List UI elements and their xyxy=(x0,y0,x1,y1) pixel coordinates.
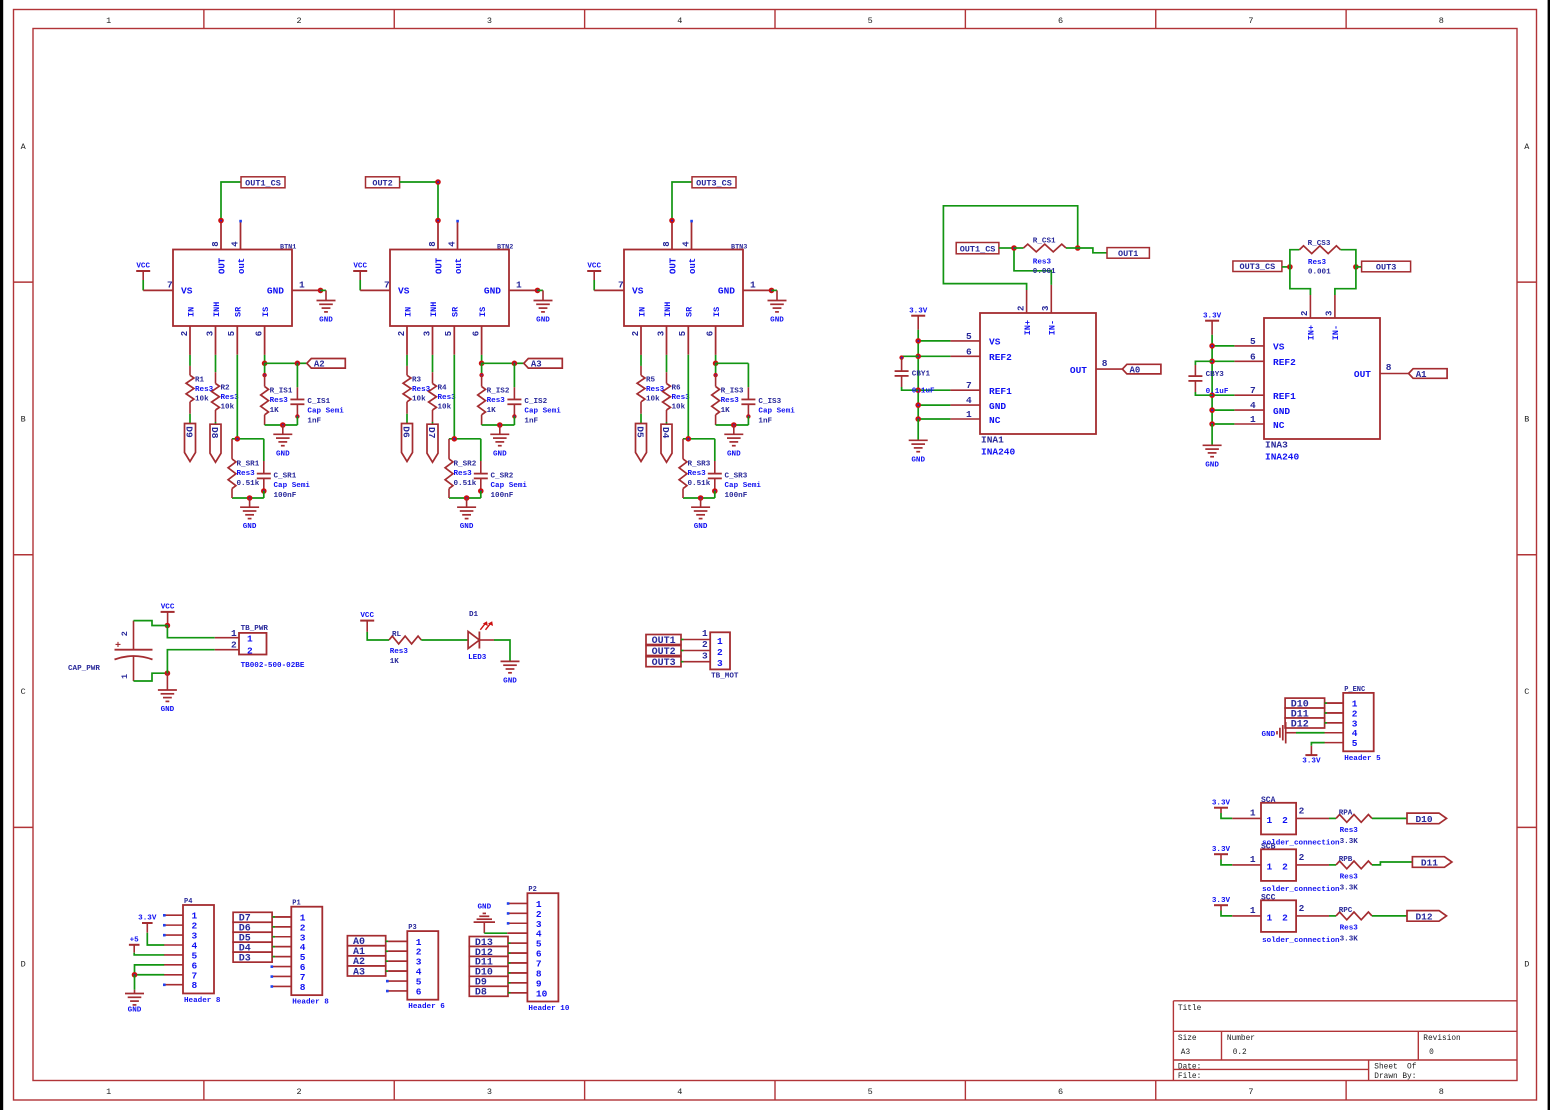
svg-text:Cap Semi: Cap Semi xyxy=(524,408,561,416)
svg-text:1: 1 xyxy=(231,628,237,639)
svg-text:6: 6 xyxy=(1058,1087,1063,1097)
svg-text:B: B xyxy=(1524,414,1529,424)
svg-text:OUT: OUT xyxy=(217,257,227,274)
svg-text:8: 8 xyxy=(1439,16,1444,26)
svg-text:5: 5 xyxy=(1250,336,1256,347)
svg-text:2: 2 xyxy=(1299,903,1305,914)
svg-text:INA3: INA3 xyxy=(1265,440,1288,451)
svg-text:GND: GND xyxy=(1262,731,1276,739)
svg-text:Date:: Date: xyxy=(1178,1063,1201,1071)
svg-text:BTN2: BTN2 xyxy=(497,243,513,251)
svg-text:R_IS1: R_IS1 xyxy=(270,388,293,396)
svg-text:INA1: INA1 xyxy=(981,435,1004,446)
svg-text:3: 3 xyxy=(702,650,708,661)
svg-text:A3: A3 xyxy=(531,360,542,370)
svg-text:5: 5 xyxy=(678,331,688,336)
svg-text:6: 6 xyxy=(472,331,482,336)
svg-text:OUT1: OUT1 xyxy=(1118,249,1138,259)
svg-text:3: 3 xyxy=(656,331,666,336)
svg-text:Res3: Res3 xyxy=(237,470,256,478)
svg-text:2: 2 xyxy=(1299,806,1305,817)
svg-text:IN: IN xyxy=(403,307,413,317)
svg-text:A3: A3 xyxy=(353,967,365,978)
svg-text:2: 2 xyxy=(717,647,723,658)
svg-text:SR: SR xyxy=(685,306,695,317)
svg-text:Res3: Res3 xyxy=(195,386,214,394)
svg-text:D6: D6 xyxy=(401,426,412,438)
svg-text:SR: SR xyxy=(234,306,244,317)
svg-text:SR: SR xyxy=(451,306,461,317)
svg-text:8: 8 xyxy=(428,241,438,246)
svg-text:GND: GND xyxy=(460,523,474,531)
svg-text:B: B xyxy=(21,414,26,424)
svg-text:1K: 1K xyxy=(390,658,400,666)
svg-text:GND: GND xyxy=(503,677,517,685)
svg-text:Res3: Res3 xyxy=(1340,827,1359,835)
svg-text:BTN1: BTN1 xyxy=(280,243,296,251)
svg-text:D1: D1 xyxy=(469,611,479,619)
svg-text:D11: D11 xyxy=(1421,858,1438,869)
svg-text:6: 6 xyxy=(416,986,422,997)
svg-text:RL: RL xyxy=(392,631,402,639)
svg-text:IS: IS xyxy=(261,307,271,317)
svg-text:1: 1 xyxy=(1250,905,1256,916)
svg-text:CAP_PWR: CAP_PWR xyxy=(68,665,100,673)
svg-text:0.1uF: 0.1uF xyxy=(1206,388,1229,396)
svg-text:7: 7 xyxy=(1248,16,1253,26)
svg-text:VCC: VCC xyxy=(353,263,367,271)
svg-text:INA240: INA240 xyxy=(981,447,1016,458)
svg-text:3.3V: 3.3V xyxy=(138,915,157,923)
svg-text:Cap Semi: Cap Semi xyxy=(307,408,344,416)
svg-text:Res3: Res3 xyxy=(721,397,740,405)
svg-text:TB002-500-02BE: TB002-500-02BE xyxy=(241,662,305,670)
svg-text:OUT1_CS: OUT1_CS xyxy=(960,244,996,254)
svg-text:P2: P2 xyxy=(528,886,536,894)
svg-text:OUT2: OUT2 xyxy=(372,178,392,188)
svg-text:D10: D10 xyxy=(1415,814,1432,825)
svg-text:D3: D3 xyxy=(239,953,251,964)
svg-text:2: 2 xyxy=(397,331,407,336)
svg-text:INA240: INA240 xyxy=(1265,452,1300,463)
svg-text:IN+: IN+ xyxy=(1307,325,1317,340)
svg-text:Res3: Res3 xyxy=(688,470,707,478)
svg-text:P1: P1 xyxy=(292,900,300,908)
svg-text:D4: D4 xyxy=(660,427,671,439)
svg-text:Res3: Res3 xyxy=(646,386,665,394)
svg-text:GND: GND xyxy=(727,450,741,458)
svg-text:File:: File: xyxy=(1178,1073,1201,1081)
svg-text:2: 2 xyxy=(297,16,302,26)
svg-text:GND: GND xyxy=(128,1007,142,1015)
svg-text:6: 6 xyxy=(255,331,265,336)
svg-text:VCC: VCC xyxy=(161,604,175,612)
svg-text:6: 6 xyxy=(1250,351,1256,362)
svg-text:A1: A1 xyxy=(1416,370,1427,380)
svg-text:VCC: VCC xyxy=(136,263,150,271)
svg-text:R_IS3: R_IS3 xyxy=(721,388,744,396)
svg-text:REF2: REF2 xyxy=(989,352,1012,363)
svg-text:5: 5 xyxy=(868,16,873,26)
svg-text:NC: NC xyxy=(989,415,1001,426)
svg-text:5: 5 xyxy=(966,331,972,342)
svg-text:C_IS2: C_IS2 xyxy=(524,398,547,406)
svg-text:TB_MOT: TB_MOT xyxy=(711,672,739,680)
svg-text:Res3: Res3 xyxy=(1033,259,1052,267)
svg-text:IN: IN xyxy=(637,307,647,317)
svg-text:2: 2 xyxy=(1300,311,1310,316)
svg-text:2: 2 xyxy=(1282,862,1288,873)
svg-text:IS: IS xyxy=(478,307,488,317)
svg-text:1: 1 xyxy=(1250,854,1256,865)
svg-text:5: 5 xyxy=(444,331,454,336)
svg-text:2: 2 xyxy=(120,631,130,636)
svg-text:1: 1 xyxy=(106,16,111,26)
svg-text:1: 1 xyxy=(966,409,972,420)
svg-text:0: 0 xyxy=(1429,1049,1434,1057)
svg-text:Sheet Of: Sheet Of xyxy=(1374,1063,1416,1071)
svg-text:1: 1 xyxy=(247,634,253,645)
svg-text:1K: 1K xyxy=(487,407,497,415)
svg-text:7: 7 xyxy=(1250,385,1256,396)
svg-text:7: 7 xyxy=(384,280,390,291)
svg-text:VS: VS xyxy=(181,285,193,296)
svg-text:3: 3 xyxy=(205,331,215,336)
svg-text:4: 4 xyxy=(681,241,691,247)
svg-text:Header 8: Header 8 xyxy=(292,999,329,1007)
svg-text:6: 6 xyxy=(706,331,716,336)
svg-text:C_IS1: C_IS1 xyxy=(307,398,330,406)
svg-text:R_CS3: R_CS3 xyxy=(1308,240,1331,248)
svg-text:6: 6 xyxy=(1058,16,1063,26)
svg-text:0.51k: 0.51k xyxy=(454,480,477,488)
svg-text:8: 8 xyxy=(211,241,221,246)
svg-text:R_SR2: R_SR2 xyxy=(454,460,477,468)
svg-text:Number: Number xyxy=(1227,1035,1255,1043)
svg-text:3: 3 xyxy=(422,331,432,336)
svg-text:5: 5 xyxy=(1352,738,1358,749)
svg-text:Res3: Res3 xyxy=(221,394,240,402)
svg-text:LED3: LED3 xyxy=(468,654,487,662)
svg-text:IN+: IN+ xyxy=(1023,320,1033,335)
svg-text:C_SR2: C_SR2 xyxy=(491,473,514,481)
svg-text:OUT3_CS: OUT3_CS xyxy=(1240,262,1276,272)
svg-text:4: 4 xyxy=(677,1087,682,1097)
svg-text:OUT3: OUT3 xyxy=(652,658,676,669)
svg-text:CBY3: CBY3 xyxy=(1206,371,1225,379)
svg-text:3.3V: 3.3V xyxy=(1203,312,1222,320)
svg-text:10k: 10k xyxy=(221,404,235,412)
svg-text:VS: VS xyxy=(1273,342,1285,353)
svg-text:D7: D7 xyxy=(426,427,437,439)
svg-text:1: 1 xyxy=(1266,815,1272,826)
svg-text:10k: 10k xyxy=(438,404,452,412)
svg-text:CBY1: CBY1 xyxy=(912,371,931,379)
svg-text:GND: GND xyxy=(161,706,175,714)
svg-text:INH: INH xyxy=(663,302,673,317)
svg-text:GND: GND xyxy=(1205,461,1219,469)
svg-text:Header 10: Header 10 xyxy=(528,1005,569,1013)
svg-text:GND: GND xyxy=(477,903,491,911)
svg-text:1: 1 xyxy=(702,628,708,639)
svg-text:GND: GND xyxy=(536,317,550,325)
svg-text:D: D xyxy=(1524,960,1529,970)
svg-text:Res3: Res3 xyxy=(270,397,289,405)
svg-text:GND: GND xyxy=(267,285,284,296)
svg-text:P4: P4 xyxy=(184,898,192,906)
svg-text:2: 2 xyxy=(297,1087,302,1097)
svg-text:100nF: 100nF xyxy=(491,492,514,500)
svg-text:GND: GND xyxy=(989,401,1006,412)
svg-text:2: 2 xyxy=(1282,913,1288,924)
svg-text:1: 1 xyxy=(717,636,723,647)
svg-text:GND: GND xyxy=(484,285,501,296)
svg-text:TB_PWR: TB_PWR xyxy=(241,625,269,633)
svg-text:Cap Semi: Cap Semi xyxy=(758,408,795,416)
svg-text:IS: IS xyxy=(712,307,722,317)
svg-text:Cap Semi: Cap Semi xyxy=(725,482,762,490)
svg-text:RPA: RPA xyxy=(1339,809,1353,817)
svg-text:8: 8 xyxy=(1439,1087,1444,1097)
svg-text:NC: NC xyxy=(1273,420,1285,431)
svg-text:OUT3: OUT3 xyxy=(1376,262,1396,272)
svg-text:VCC: VCC xyxy=(360,612,374,620)
svg-text:1K: 1K xyxy=(270,407,280,415)
svg-text:4: 4 xyxy=(677,16,682,26)
svg-text:3: 3 xyxy=(487,16,492,26)
svg-text:A: A xyxy=(21,142,27,152)
svg-text:INH: INH xyxy=(212,302,222,317)
svg-text:1nF: 1nF xyxy=(307,417,321,425)
svg-text:Res3: Res3 xyxy=(390,648,409,656)
svg-text:Size: Size xyxy=(1178,1035,1197,1043)
svg-text:Res3: Res3 xyxy=(487,397,506,405)
svg-text:P3: P3 xyxy=(408,924,416,932)
svg-text:GND: GND xyxy=(319,317,333,325)
svg-text:OUT1_CS: OUT1_CS xyxy=(245,178,281,188)
svg-text:3: 3 xyxy=(487,1087,492,1097)
svg-text:D12: D12 xyxy=(1291,719,1309,730)
svg-text:R_IS2: R_IS2 xyxy=(487,388,510,396)
svg-text:0.001: 0.001 xyxy=(1308,268,1331,276)
svg-text:7: 7 xyxy=(1248,1087,1253,1097)
svg-text:1: 1 xyxy=(1250,808,1256,819)
svg-text:OUT: OUT xyxy=(668,257,678,274)
svg-text:10: 10 xyxy=(536,988,548,999)
svg-text:D5: D5 xyxy=(635,426,646,438)
svg-text:+5: +5 xyxy=(130,936,140,944)
svg-text:Res3: Res3 xyxy=(672,394,691,402)
svg-text:out: out xyxy=(237,258,247,274)
svg-text:3.3K: 3.3K xyxy=(1340,838,1359,846)
svg-text:0.1uF: 0.1uF xyxy=(912,388,935,396)
svg-text:GND: GND xyxy=(276,450,290,458)
svg-text:R1: R1 xyxy=(195,376,205,384)
svg-text:IN-: IN- xyxy=(1331,325,1341,340)
svg-text:RPC: RPC xyxy=(1339,907,1353,915)
svg-text:1nF: 1nF xyxy=(524,417,538,425)
svg-text:OUT3_CS: OUT3_CS xyxy=(696,178,732,188)
svg-text:IN-: IN- xyxy=(1048,320,1058,335)
svg-text:C: C xyxy=(1524,687,1529,697)
svg-text:1: 1 xyxy=(1266,913,1272,924)
svg-text:8: 8 xyxy=(662,241,672,246)
svg-text:OUT: OUT xyxy=(434,257,444,274)
svg-text:BTN3: BTN3 xyxy=(731,243,747,251)
svg-text:INH: INH xyxy=(429,302,439,317)
svg-text:0.51k: 0.51k xyxy=(237,480,260,488)
svg-text:GND: GND xyxy=(694,523,708,531)
svg-text:Header 6: Header 6 xyxy=(408,1003,445,1011)
svg-text:Res3: Res3 xyxy=(1340,925,1359,933)
svg-text:3.3V: 3.3V xyxy=(1212,846,1231,854)
svg-text:solder_connection: solder_connection xyxy=(1262,937,1340,945)
svg-text:GND: GND xyxy=(911,456,925,464)
svg-text:2: 2 xyxy=(631,331,641,336)
svg-text:IN: IN xyxy=(186,307,196,317)
svg-text:3.3V: 3.3V xyxy=(1212,897,1231,905)
svg-text:REF1: REF1 xyxy=(1273,391,1296,402)
svg-text:100nF: 100nF xyxy=(725,492,748,500)
svg-text:R6: R6 xyxy=(672,384,682,392)
svg-text:D8: D8 xyxy=(475,988,487,999)
svg-text:A: A xyxy=(1524,142,1530,152)
svg-text:8: 8 xyxy=(300,982,306,993)
svg-text:0.001: 0.001 xyxy=(1033,268,1056,276)
svg-text:5: 5 xyxy=(227,331,237,336)
svg-text:REF2: REF2 xyxy=(1273,357,1296,368)
svg-text:R_SR3: R_SR3 xyxy=(688,460,711,468)
svg-text:Title: Title xyxy=(1178,1005,1202,1013)
svg-text:4: 4 xyxy=(1250,400,1256,411)
svg-text:Drawn By:: Drawn By: xyxy=(1374,1073,1416,1081)
svg-text:7: 7 xyxy=(966,380,972,391)
svg-text:8: 8 xyxy=(1102,358,1108,369)
svg-text:C_IS3: C_IS3 xyxy=(758,398,781,406)
svg-text:1: 1 xyxy=(750,280,756,291)
svg-text:2: 2 xyxy=(180,331,190,336)
svg-text:Header 8: Header 8 xyxy=(184,997,221,1005)
svg-text:3: 3 xyxy=(1325,311,1335,316)
svg-text:REF1: REF1 xyxy=(989,386,1012,397)
svg-text:2: 2 xyxy=(702,639,708,650)
svg-text:1K: 1K xyxy=(721,407,731,415)
svg-text:Res3: Res3 xyxy=(454,470,473,478)
svg-text:VS: VS xyxy=(989,337,1001,348)
svg-text:C: C xyxy=(21,687,26,697)
svg-text:2: 2 xyxy=(1299,852,1305,863)
svg-text:R_SR1: R_SR1 xyxy=(237,460,260,468)
svg-text:C_SR1: C_SR1 xyxy=(274,473,297,481)
svg-text:3.3V: 3.3V xyxy=(909,307,928,315)
svg-text:Res3: Res3 xyxy=(438,394,457,402)
svg-text:A0: A0 xyxy=(1130,366,1141,376)
svg-text:3.3K: 3.3K xyxy=(1340,884,1359,892)
svg-text:2: 2 xyxy=(1016,306,1026,311)
svg-text:10k: 10k xyxy=(412,396,426,404)
svg-text:3.3V: 3.3V xyxy=(1302,758,1321,766)
svg-text:GND: GND xyxy=(770,317,784,325)
svg-text:3.3K: 3.3K xyxy=(1340,935,1359,943)
svg-text:4: 4 xyxy=(447,241,457,247)
svg-text:7: 7 xyxy=(618,280,624,291)
svg-text:6: 6 xyxy=(966,346,972,357)
svg-text:Header 5: Header 5 xyxy=(1344,755,1381,763)
svg-text:2: 2 xyxy=(1282,815,1288,826)
svg-text:3: 3 xyxy=(717,658,723,669)
svg-text:D12: D12 xyxy=(1415,912,1432,923)
svg-text:1: 1 xyxy=(516,280,522,291)
svg-text:R5: R5 xyxy=(646,376,656,384)
svg-text:VS: VS xyxy=(398,285,410,296)
svg-text:7: 7 xyxy=(167,280,173,291)
svg-text:R2: R2 xyxy=(221,384,231,392)
svg-text:VS: VS xyxy=(632,285,644,296)
svg-text:R3: R3 xyxy=(412,376,422,384)
svg-text:OUT: OUT xyxy=(1354,369,1371,380)
svg-text:R4: R4 xyxy=(438,384,448,392)
svg-text:OUT: OUT xyxy=(1070,365,1087,376)
svg-text:D8: D8 xyxy=(209,427,220,439)
svg-text:3: 3 xyxy=(1041,306,1051,311)
svg-text:Revision: Revision xyxy=(1423,1035,1460,1043)
svg-text:2: 2 xyxy=(231,640,237,651)
svg-text:Res3: Res3 xyxy=(1340,874,1359,882)
svg-text:D: D xyxy=(21,960,26,970)
svg-text:Res3: Res3 xyxy=(412,386,431,394)
svg-text:1: 1 xyxy=(106,1087,111,1097)
svg-text:GND: GND xyxy=(493,450,507,458)
svg-text:C_SR3: C_SR3 xyxy=(725,473,748,481)
svg-text:0.2: 0.2 xyxy=(1233,1049,1247,1057)
svg-text:Cap Semi: Cap Semi xyxy=(274,482,311,490)
svg-text:RPB: RPB xyxy=(1339,856,1353,864)
svg-text:GND: GND xyxy=(243,523,257,531)
svg-text:VCC: VCC xyxy=(587,263,601,271)
svg-text:5: 5 xyxy=(868,1087,873,1097)
svg-text:4: 4 xyxy=(966,395,972,406)
svg-text:out: out xyxy=(454,258,464,274)
svg-text:8: 8 xyxy=(192,980,198,991)
svg-text:3.3V: 3.3V xyxy=(1212,799,1231,807)
svg-text:10k: 10k xyxy=(195,396,209,404)
svg-text:GND: GND xyxy=(718,285,735,296)
svg-text:1: 1 xyxy=(1250,414,1256,425)
svg-text:A3: A3 xyxy=(1181,1049,1191,1057)
svg-text:1nF: 1nF xyxy=(758,417,772,425)
svg-text:0.51k: 0.51k xyxy=(688,480,711,488)
svg-text:10k: 10k xyxy=(646,396,660,404)
svg-text:8: 8 xyxy=(1386,362,1392,373)
svg-text:D9: D9 xyxy=(184,426,195,438)
svg-text:1: 1 xyxy=(299,280,305,291)
svg-text:GND: GND xyxy=(1273,406,1290,417)
svg-text:+: + xyxy=(115,641,121,652)
svg-text:10k: 10k xyxy=(672,404,686,412)
svg-text:Cap Semi: Cap Semi xyxy=(491,482,528,490)
svg-text:R_CS1: R_CS1 xyxy=(1033,237,1056,245)
svg-text:1: 1 xyxy=(1266,862,1272,873)
svg-text:100nF: 100nF xyxy=(274,492,297,500)
svg-text:2: 2 xyxy=(247,645,253,656)
svg-text:1: 1 xyxy=(120,674,130,679)
svg-text:P_ENC: P_ENC xyxy=(1344,686,1365,694)
svg-text:Res3: Res3 xyxy=(1308,259,1327,267)
svg-text:A2: A2 xyxy=(314,360,325,370)
svg-text:out: out xyxy=(688,258,698,274)
svg-text:4: 4 xyxy=(230,241,240,247)
